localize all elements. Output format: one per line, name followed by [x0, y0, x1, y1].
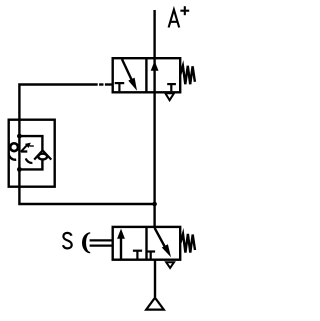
FC1 check valve ball: [38, 154, 47, 160]
FC1 check ball ring on left of main line: [10, 143, 18, 151]
junction dot at main line / pilot line: [152, 202, 157, 207]
valve V2 (bottom, 3/2 NC, pushbutton left, spring right) body: [113, 227, 181, 260]
valve V1 right cell: blocked port T: [167, 83, 176, 85]
compressed air source triangle: [146, 298, 164, 310]
valve V2 right cell: diagonal flow arrow 2 to 3: [155, 228, 166, 248]
wire: main working line from A+ down to bottom valve: [153, 10, 155, 227]
FC1 junction dot top: [17, 134, 22, 139]
valve V2 pushbutton rails: [90, 239, 112, 241]
FC1 throttle dash: [21, 150, 27, 152]
label S: [63, 233, 72, 249]
wire: pilot line from top valve left side, down left, to junction (dashes near valve): [19, 85, 154, 205]
valve V1 cell divider: [145, 58, 147, 92]
valve V2 return spring: [180, 234, 195, 253]
valve V2 pushbutton actuator cap: [82, 232, 90, 253]
flow control valve FC1 outer box: [9, 120, 55, 187]
valve V1 left cell: diagonal flow arrow 2 to 3: [122, 59, 132, 81]
valve V2 left cell: blocked port T: [133, 250, 142, 252]
FC1 check valve seat (lambda): [34, 150, 51, 159]
node A+ plus sign: [180, 6, 189, 15]
FC1 lower arc: [26, 158, 33, 163]
FC1 seat arc below ball: [9, 153, 17, 160]
FC1 right branch: upper line: [19, 136, 42, 150]
valve V2 exhaust triangle (port 3): [166, 262, 174, 268]
valve V1 (top, 3/2 NO, pilot left, spring right) body: [113, 58, 181, 92]
valve V2 cell divider: [145, 227, 147, 260]
wire: supply line below valve V2: [154, 260, 156, 297]
valve V1 return spring: [180, 66, 195, 84]
valve V1 right cell: upward flow arrow on main line: [151, 61, 159, 71]
valve V2 left cell: upward flow arrow: [120, 237, 122, 260]
FC1 right branch: lower line: [19, 160, 42, 170]
FC1 adjustment arrow (diagonal with head): [21, 145, 28, 152]
FC1 junction dot bottom: [17, 167, 22, 172]
valve V1 left cell: blocked port T: [115, 82, 125, 84]
valve V1 exhaust triangle (port 3): [165, 93, 174, 100]
valve V2 right cell: blocked port T: [147, 250, 156, 252]
node A+ label letter A: [169, 10, 180, 28]
